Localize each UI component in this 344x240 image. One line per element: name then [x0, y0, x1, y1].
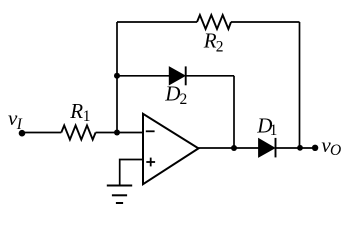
op-amp minus sign [146, 130, 155, 132]
node junction feedback/output [297, 145, 303, 151]
wire top feedback left segment [117, 21, 197, 23]
svg-text:1: 1 [270, 122, 278, 139]
op-amp U1 [143, 114, 199, 184]
wire vI to R1 [22, 132, 62, 134]
terminal vO [312, 145, 318, 151]
wire D2 to output node vertical [233, 76, 235, 148]
resistor R2 [197, 15, 231, 29]
wire noninverting input [120, 160, 143, 186]
wire R1 to inverting input [96, 132, 143, 134]
wire left vertical (R2 to inverting node) [116, 22, 118, 133]
node junction inverting input [114, 130, 120, 136]
svg-text:2: 2 [180, 91, 188, 108]
svg-text:O: O [330, 142, 341, 159]
terminal vI [19, 130, 26, 137]
svg-text:R: R [203, 29, 217, 53]
svg-text:1: 1 [83, 108, 91, 125]
svg-text:D: D [164, 82, 180, 106]
wire D2 branch left [117, 75, 170, 77]
node junction D2 branch [114, 73, 120, 79]
node junction op-amp output [231, 145, 237, 151]
wire top feedback right segment [231, 21, 300, 23]
ground [107, 186, 132, 204]
wire D2 branch right [186, 75, 234, 77]
svg-text:2: 2 [216, 39, 224, 56]
wire right vertical (R2 to output node) [299, 22, 301, 148]
diode D1 [259, 138, 276, 158]
resistor R1 [61, 125, 95, 139]
svg-text:R: R [69, 99, 83, 123]
wire op-amp output [198, 147, 258, 149]
wire D1 to output terminal [276, 147, 316, 149]
op-amp plus sign [146, 158, 155, 167]
diode D2 [169, 66, 185, 85]
